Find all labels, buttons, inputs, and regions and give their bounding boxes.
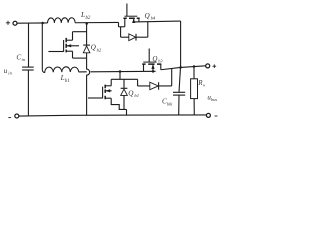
node dot Q_b2 top	[85, 22, 88, 25]
node dot rail to Q_b1	[119, 70, 122, 73]
resistor R_o	[191, 67, 206, 116]
input - terminal	[8, 114, 18, 118]
wire Q_b2 leg lower + hop over L_b1 rail	[87, 53, 90, 116]
diode D_b3 loop	[138, 68, 172, 89]
svg-text:b2: b2	[86, 16, 91, 21]
svg-text:b3: b3	[158, 58, 163, 63]
wire output corner drop	[180, 21, 182, 67]
svg-text:bus: bus	[211, 97, 217, 102]
svg-text:blk: blk	[167, 101, 173, 106]
svg-text:in: in	[22, 57, 26, 62]
node dot output corner	[179, 66, 182, 69]
svg-text:Q: Q	[152, 55, 157, 63]
wire top rail mid	[75, 21, 119, 23]
svg-text:b4: b4	[151, 16, 156, 21]
output - terminal	[206, 113, 217, 117]
label Q_b1	[128, 89, 139, 98]
node dot Q_b3 body tie	[152, 70, 155, 73]
wire switch-node rail (to Q_b3)	[79, 70, 156, 73]
svg-text:o: o	[203, 83, 206, 88]
svg-text:Q: Q	[128, 89, 134, 97]
wire Q_b2 leg upper	[86, 24, 88, 46]
transistor Q_b2	[48, 32, 86, 58]
transistor Q_b3 (mid, horizontal)	[142, 49, 161, 72]
diode D_b4 loop	[121, 22, 148, 41]
label u_bus	[207, 93, 217, 102]
capacitor C_blk	[162, 67, 185, 115]
svg-text:b2: b2	[97, 47, 102, 52]
wire L_b1 feed	[41, 23, 43, 70]
svg-text:Q: Q	[145, 12, 151, 20]
wire output + rail	[161, 66, 206, 70]
inductor L_b2	[47, 18, 75, 23]
u_in source label	[4, 67, 13, 76]
output + terminal	[206, 64, 216, 68]
transistor Q_b1	[88, 79, 138, 109]
svg-text:L: L	[80, 10, 85, 19]
capacitor C_in	[16, 23, 33, 116]
inductor L_b1	[42, 67, 78, 73]
wire bottom rail	[19, 115, 207, 116]
wire Q_b1 drain feed	[119, 72, 121, 80]
wire top rail left	[17, 22, 47, 24]
svg-text:u: u	[4, 67, 8, 75]
input + terminal	[6, 21, 17, 26]
diode D_b2 (body diode of Q_b2)	[83, 45, 90, 53]
svg-text:b1: b1	[134, 93, 139, 98]
label Q_b4	[145, 12, 156, 21]
wire top rail right	[134, 20, 181, 23]
label Q_b3	[152, 55, 163, 64]
svg-text:b1: b1	[65, 79, 70, 84]
node dot R_o top	[193, 65, 196, 68]
node dot L_b1 branch	[41, 22, 44, 25]
transistor Q_b4 (top, horizontal)	[119, 4, 140, 27]
label Q_b2	[91, 44, 102, 53]
svg-text:in: in	[8, 71, 12, 76]
diode D_b1 (body diode of Q_b1)	[121, 79, 128, 115]
